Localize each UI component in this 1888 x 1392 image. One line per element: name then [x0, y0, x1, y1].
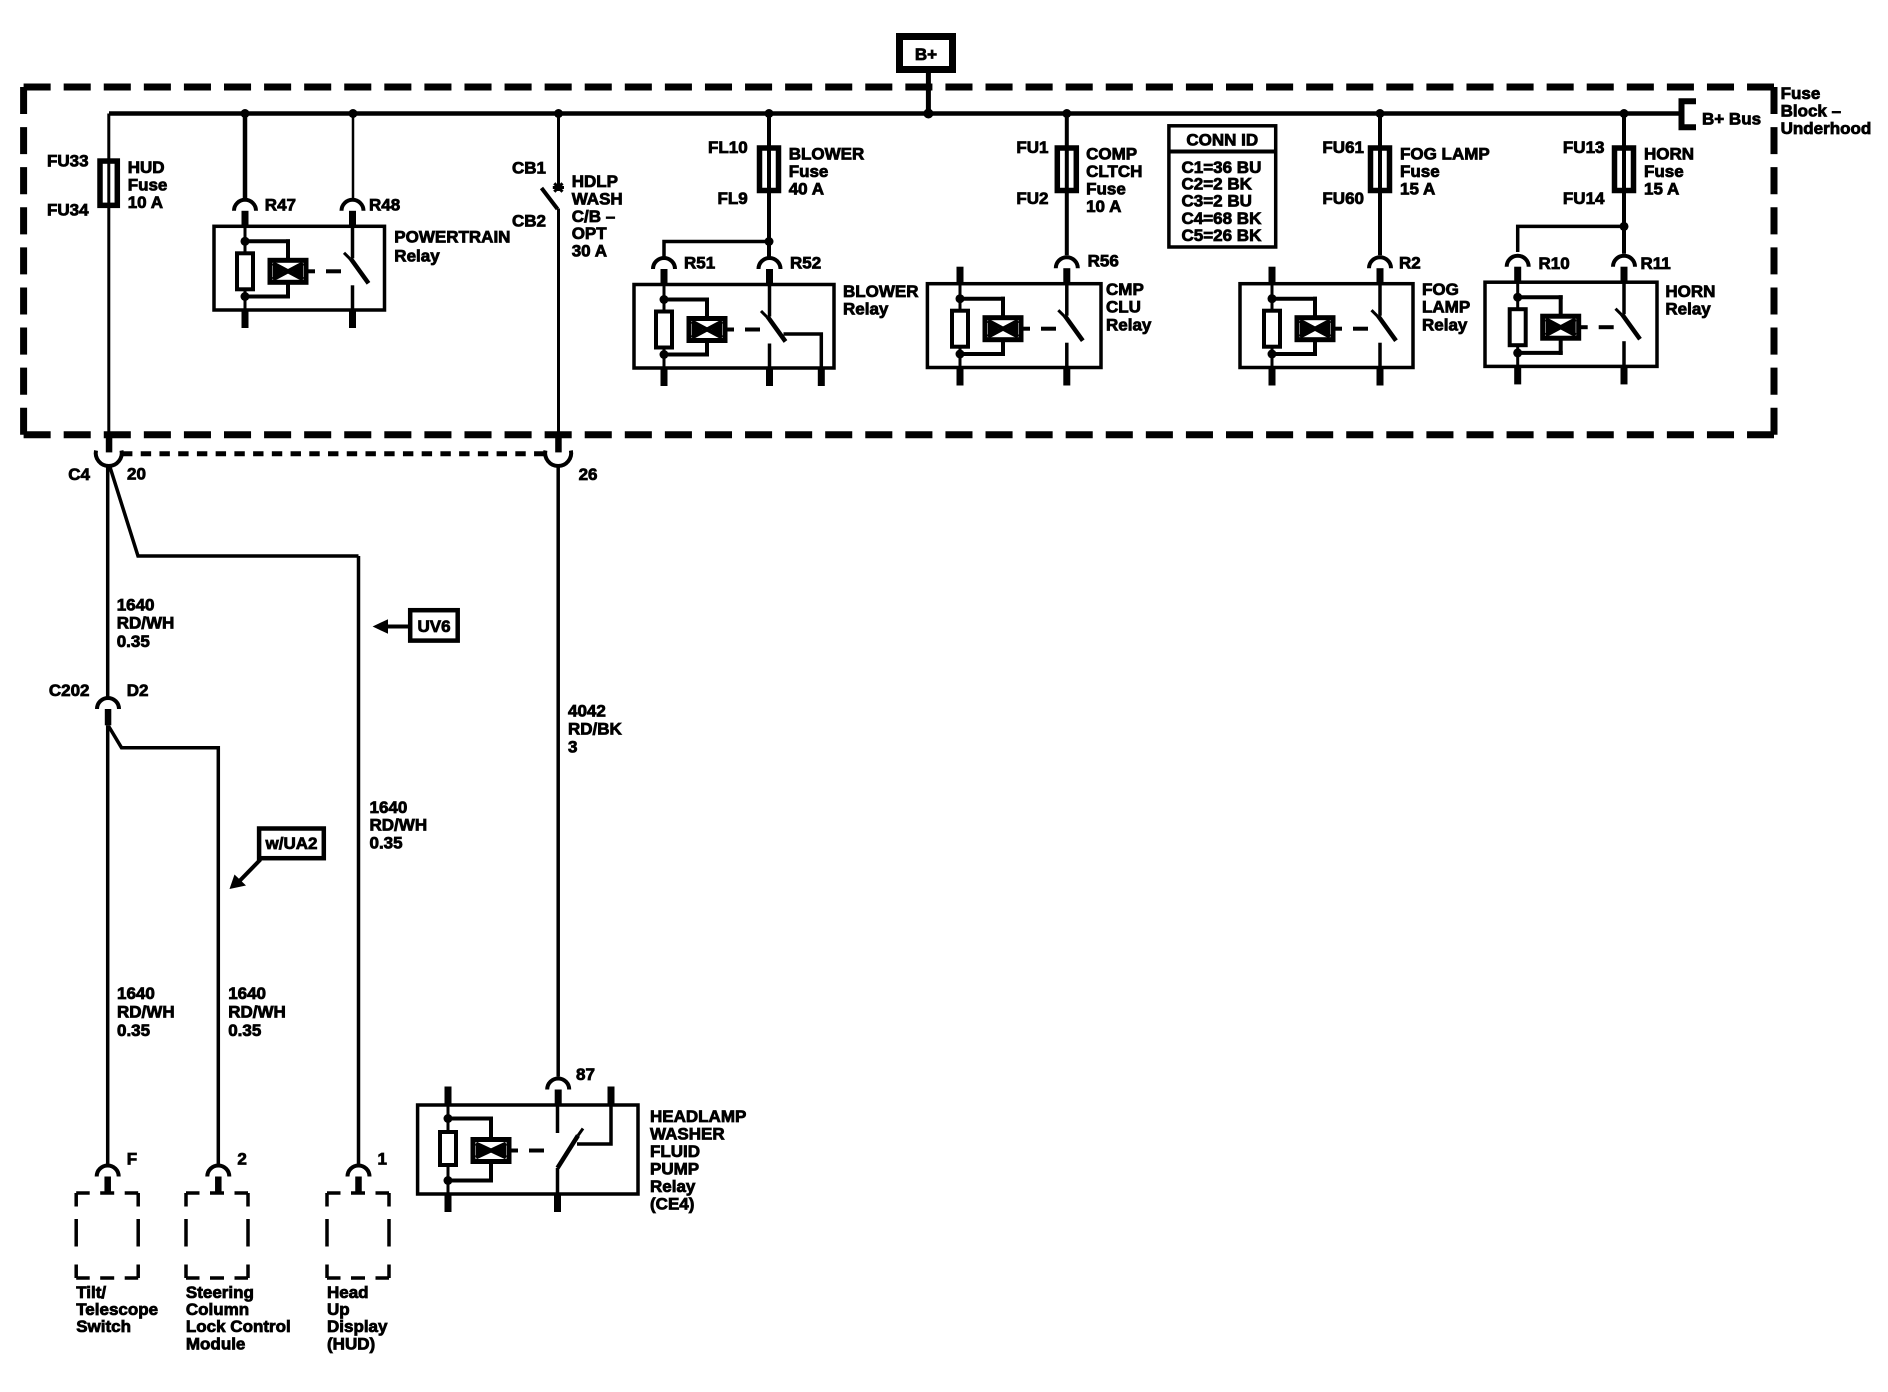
- svg-text:20: 20: [127, 465, 146, 484]
- svg-text:Tilt/: Tilt/: [76, 1283, 106, 1302]
- svg-text:R11: R11: [1641, 254, 1671, 273]
- power symbol B+: [900, 37, 953, 70]
- fuse FU33/FU34 HUD: [100, 161, 117, 205]
- svg-text:FL9: FL9: [717, 189, 747, 208]
- svg-text:0.35: 0.35: [228, 1021, 261, 1040]
- fuse FU1/FU2 COMP CLTCH: [1057, 148, 1076, 191]
- svg-text:CONN ID: CONN ID: [1186, 131, 1258, 150]
- svg-text:30 A: 30 A: [572, 242, 607, 261]
- svg-text:Head: Head: [327, 1283, 369, 1302]
- svg-text:15 A: 15 A: [1644, 180, 1679, 199]
- svg-text:Lock Control: Lock Control: [186, 1317, 291, 1336]
- relay CMP CLU K3 resistor: [959, 284, 962, 311]
- svg-text:0.35: 0.35: [117, 1021, 150, 1040]
- fuse block underhood dashed boundary: [24, 84, 1774, 91]
- connector C202 pin D2: [97, 698, 119, 709]
- svg-text:FU33: FU33: [47, 151, 89, 170]
- svg-text:FOG: FOG: [1422, 280, 1459, 299]
- wire bus to R56 through fuse FU1: [1065, 114, 1069, 256]
- svg-text:RD/WH: RD/WH: [370, 816, 428, 835]
- svg-text:1640: 1640: [228, 984, 266, 1003]
- svg-text:C/B –: C/B –: [572, 207, 615, 226]
- relay HORN K5 box: [1485, 282, 1657, 366]
- svg-text:R56: R56: [1088, 252, 1119, 271]
- relay FOG LAMP K4 coil pin: [1269, 267, 1276, 284]
- relay POWERTRAIN K1 bottom pins: [242, 310, 249, 328]
- svg-text:F: F: [127, 1149, 137, 1168]
- relay CMP CLU K3 actuator dashed link: [1021, 327, 1030, 331]
- svg-text:HEADLAMP: HEADLAMP: [650, 1107, 746, 1126]
- svg-text:Underhood: Underhood: [1781, 119, 1872, 138]
- svg-text:Fuse: Fuse: [1644, 162, 1684, 181]
- svg-text:FU61: FU61: [1322, 138, 1364, 157]
- relay HEADLAMP WASHER bottom pins: [445, 1194, 452, 1212]
- CONN ID legend box: [1169, 126, 1276, 247]
- relay FOG LAMP K4 actuator dashed link: [1333, 327, 1342, 331]
- svg-text:Relay: Relay: [1106, 315, 1152, 334]
- svg-text:26: 26: [579, 465, 598, 484]
- svg-text:Block –: Block –: [1781, 102, 1841, 121]
- svg-text:BLOWER: BLOWER: [843, 282, 919, 301]
- fuse FL10/FL9 BLOWER: [760, 148, 779, 191]
- relay FOG LAMP K4 coil winding: [1272, 297, 1317, 301]
- svg-text:CB2: CB2: [512, 212, 546, 231]
- wire C202 to tilt switch: [106, 725, 110, 1164]
- svg-text:R2: R2: [1399, 254, 1421, 273]
- wire blower switch output elbow: [784, 334, 822, 368]
- relay POWERTRAIN K1 switch: [342, 200, 364, 211]
- svg-text:4042: 4042: [568, 702, 606, 721]
- connector pin 87: [547, 1079, 569, 1090]
- svg-text:Telescope: Telescope: [76, 1300, 158, 1319]
- relay POWERTRAIN K1 box: [214, 226, 385, 310]
- svg-text:FU13: FU13: [1563, 138, 1605, 157]
- svg-text:Fuse: Fuse: [128, 176, 168, 195]
- svg-text:R47: R47: [265, 196, 296, 215]
- relay HORN K5 bottom pins: [1514, 366, 1521, 384]
- svg-text:3: 3: [568, 738, 577, 757]
- fuse FU13/FU14 HORN: [1615, 148, 1634, 191]
- svg-text:Column: Column: [186, 1300, 249, 1319]
- wire branch C4 to HUD display line: [110, 466, 359, 557]
- svg-text:B+: B+: [915, 45, 937, 64]
- harness connector dotted line C4: [122, 451, 545, 456]
- svg-text:OPT: OPT: [572, 224, 608, 243]
- relay CMP CLU K3 switch: [1056, 257, 1078, 268]
- connector C4 pin 20: [106, 435, 113, 453]
- svg-text:Fuse: Fuse: [1400, 162, 1440, 181]
- svg-text:(CE4): (CE4): [650, 1195, 694, 1214]
- svg-text:CLTCH: CLTCH: [1086, 162, 1142, 181]
- wire bus to R48: [352, 114, 355, 199]
- svg-text:R51: R51: [684, 254, 715, 273]
- component Steering Column Lock Control Module: [186, 1193, 248, 1278]
- svg-text:Relay: Relay: [1665, 300, 1711, 319]
- svg-text:Display: Display: [327, 1317, 388, 1336]
- wire 4042 RD/BK connector 26 to relay 87: [556, 466, 560, 1077]
- fuse FU61/FU60 FOG LAMP: [1371, 148, 1390, 191]
- svg-text:RD/BK: RD/BK: [568, 720, 623, 739]
- svg-text:Switch: Switch: [76, 1317, 131, 1336]
- wire branch to R51: [664, 242, 769, 257]
- relay BLOWER K2 coil pin: [653, 258, 675, 269]
- connector pin 26: [555, 435, 562, 453]
- wire C4-20 down to C202: [106, 466, 110, 697]
- relay FOG LAMP K4 box: [1240, 284, 1413, 368]
- svg-text:0.35: 0.35: [370, 834, 403, 853]
- svg-text:B+ Bus: B+ Bus: [1702, 109, 1761, 128]
- relay HORN K5 resistor: [1516, 282, 1519, 309]
- svg-text:HORN: HORN: [1644, 145, 1694, 164]
- svg-text:10 A: 10 A: [128, 193, 163, 212]
- wire branch C202 to steering column module: [109, 726, 219, 1164]
- connector pin 2: [207, 1166, 229, 1177]
- svg-text:15 A: 15 A: [1400, 180, 1435, 199]
- svg-text:Up: Up: [327, 1300, 350, 1319]
- svg-text:0.35: 0.35: [117, 632, 150, 651]
- svg-text:FU34: FU34: [47, 201, 89, 220]
- svg-text:C3=2 BU: C3=2 BU: [1182, 191, 1252, 210]
- relay FOG LAMP K4 resistor: [1271, 284, 1274, 311]
- svg-text:Fuse: Fuse: [789, 162, 829, 181]
- relay HEADLAMP WASHER resistor: [447, 1105, 450, 1132]
- svg-text:RD/WH: RD/WH: [117, 614, 175, 633]
- svg-text:87: 87: [576, 1065, 595, 1084]
- svg-text:RD/WH: RD/WH: [117, 1003, 175, 1022]
- relay HORN K5 switch: [1613, 256, 1635, 267]
- wire bus to R47: [243, 114, 248, 199]
- svg-text:FU2: FU2: [1016, 189, 1048, 208]
- relay CMP CLU K3 coil pin: [957, 267, 964, 284]
- svg-text:RD/WH: RD/WH: [228, 1003, 286, 1022]
- relay POWERTRAIN K1 coil winding: [245, 239, 290, 243]
- wire B+ feed to bus: [926, 73, 931, 114]
- svg-text:UV6: UV6: [417, 617, 450, 636]
- svg-text:Relay: Relay: [394, 247, 440, 266]
- svg-text:LAMP: LAMP: [1422, 298, 1470, 317]
- relay BLOWER K2 actuator dashed link: [725, 328, 734, 332]
- svg-text:BLOWER: BLOWER: [789, 145, 865, 164]
- relay POWERTRAIN K1 resistor: [244, 226, 247, 253]
- relay BLOWER K2 resistor: [663, 285, 666, 312]
- relay POWERTRAIN K1 actuator dashed link: [306, 269, 315, 273]
- svg-text:C5=26 BK: C5=26 BK: [1182, 226, 1263, 245]
- svg-text:Relay: Relay: [650, 1177, 696, 1196]
- node bus junction dots: [241, 109, 250, 118]
- relay BLOWER K2 box: [634, 285, 834, 369]
- relay BLOWER K2 coil winding: [664, 298, 709, 302]
- relay HEADLAMP WASHER box: [418, 1105, 638, 1194]
- svg-text:HDLP: HDLP: [572, 172, 618, 191]
- wire 1640 RD/WH to HUD: [357, 556, 361, 1164]
- svg-text:HORN: HORN: [1665, 282, 1715, 301]
- relay CMP CLU K3 box: [927, 284, 1101, 368]
- relay HEADLAMP WASHER coil pin: [445, 1087, 452, 1106]
- svg-text:HUD: HUD: [128, 158, 165, 177]
- wire bus to CB1: [557, 114, 560, 192]
- connector pin F: [97, 1166, 119, 1177]
- component Tilt/Telescope Switch: [76, 1193, 138, 1278]
- connector pin 1: [348, 1166, 370, 1177]
- relay HORN K5 actuator dashed link: [1579, 325, 1588, 329]
- wire bus to R2 through fuse FU61: [1378, 114, 1382, 256]
- svg-text:Relay: Relay: [843, 300, 889, 319]
- svg-text:FLUID: FLUID: [650, 1142, 700, 1161]
- option arrow UV6: [373, 619, 388, 634]
- option tag w/UA2: [259, 829, 324, 859]
- relay BLOWER K2 bottom pins: [661, 368, 668, 386]
- svg-text:FL10: FL10: [708, 138, 748, 157]
- svg-text:1640: 1640: [117, 984, 155, 1003]
- circuit breaker blade: [542, 188, 558, 209]
- relay CMP CLU K3 bottom pins: [957, 368, 964, 386]
- svg-text:R52: R52: [790, 254, 821, 273]
- svg-text:WASHER: WASHER: [650, 1125, 725, 1144]
- svg-text:1640: 1640: [117, 596, 155, 615]
- relay HORN K5 coil winding: [1518, 295, 1563, 299]
- svg-text:POWERTRAIN: POWERTRAIN: [394, 227, 510, 246]
- relay HEADLAMP WASHER switch: [556, 1105, 560, 1133]
- svg-text:D2: D2: [127, 681, 149, 700]
- relay HEADLAMP WASHER coil winding: [448, 1117, 493, 1121]
- wire bus to R11 through fuse FU13: [1622, 114, 1626, 254]
- svg-text:R48: R48: [369, 196, 400, 215]
- relay CMP CLU K3 coil winding: [960, 297, 1005, 301]
- relay BLOWER K2 switch: [759, 258, 781, 269]
- relay POWERTRAIN K1 coil pin: [234, 200, 256, 211]
- relay HORN K5 coil pin: [1507, 256, 1529, 267]
- svg-text:WASH: WASH: [572, 189, 623, 208]
- svg-text:2: 2: [237, 1149, 246, 1168]
- relay FOG LAMP K4 bottom pins: [1269, 368, 1276, 386]
- svg-text:C202: C202: [49, 681, 90, 700]
- svg-text:FU1: FU1: [1016, 138, 1048, 157]
- svg-text:CLU: CLU: [1106, 298, 1141, 317]
- B+ Bus terminal bracket: [1682, 101, 1697, 127]
- svg-text:FU14: FU14: [1563, 189, 1605, 208]
- svg-text:CB1: CB1: [512, 159, 546, 178]
- svg-text:1640: 1640: [370, 798, 408, 817]
- svg-text:10 A: 10 A: [1086, 197, 1121, 216]
- svg-text:FOG LAMP: FOG LAMP: [1400, 145, 1490, 164]
- svg-text:40 A: 40 A: [789, 180, 824, 199]
- svg-text:w/UA2: w/UA2: [265, 834, 318, 853]
- svg-text:Steering: Steering: [186, 1283, 254, 1302]
- svg-text:1: 1: [378, 1149, 387, 1168]
- circuit breaker CB1/CB2 HDLP WASH star: [553, 186, 564, 189]
- wire B+ bus: [109, 111, 1679, 116]
- svg-text:C4: C4: [68, 465, 90, 484]
- svg-text:CMP: CMP: [1106, 280, 1144, 299]
- svg-text:Fuse: Fuse: [1781, 84, 1821, 103]
- component Head Up Display (HUD): [327, 1193, 389, 1278]
- wire bus to connector C4 through fuse FU33: [107, 114, 110, 435]
- svg-text:R10: R10: [1539, 254, 1570, 273]
- svg-text:PUMP: PUMP: [650, 1160, 699, 1179]
- svg-text:(HUD): (HUD): [327, 1335, 375, 1354]
- svg-text:FU60: FU60: [1322, 189, 1364, 208]
- relay HEADLAMP WASHER actuator dashed link: [509, 1149, 518, 1153]
- svg-text:COMP: COMP: [1086, 145, 1137, 164]
- wire bus to blower relay through fuse FL10: [767, 114, 771, 257]
- svg-text:Fuse: Fuse: [1086, 180, 1126, 199]
- relay FOG LAMP K4 switch: [1369, 257, 1391, 268]
- wire branch to R10: [1518, 226, 1624, 252]
- svg-text:Module: Module: [186, 1335, 246, 1354]
- svg-text:Relay: Relay: [1422, 315, 1468, 334]
